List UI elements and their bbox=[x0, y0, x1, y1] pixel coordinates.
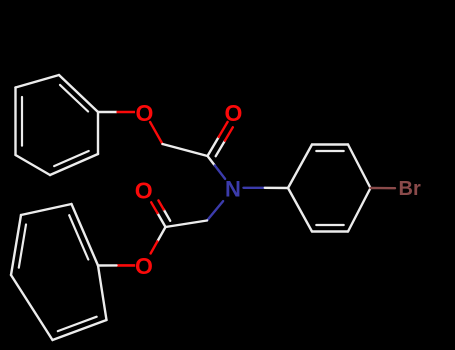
double bond C1=O2 main line (red half) bbox=[219, 122, 228, 137]
ring1 inner double-bond line 1 bbox=[60, 85, 88, 112]
benzene ring3 (4-bromophenyl) bbox=[288, 145, 312, 189]
benzene ring1 (phenoxy phenyl) bbox=[59, 75, 98, 112]
bond O1 to CH2a (red) bbox=[150, 122, 162, 144]
bond C2 to O4 (red half) bbox=[151, 241, 158, 253]
bond C2 to O4 (gray half) bbox=[157, 227, 165, 241]
ring3 inner double-bond line bottom bbox=[316, 224, 343, 226]
double bond C2=O3 main line (gray half) bbox=[158, 213, 166, 227]
svg-text:Br: Br bbox=[399, 178, 421, 200]
bond N to CH2b (blue) bbox=[207, 201, 223, 220]
bond CH2a to C1 (gray) bbox=[163, 144, 208, 156]
double bond C2=O3 parallel line (gray half) bbox=[164, 210, 171, 221]
bond N to ring3 (gray half) bbox=[265, 187, 288, 190]
ring2 inner double-bond line 3 bbox=[19, 225, 26, 268]
bond ring1 C to O1 (gray half) bbox=[98, 111, 117, 113]
bond ring1 C to O1 (red half) bbox=[117, 111, 136, 114]
ring1 inner double-bond line 3 bbox=[54, 151, 89, 166]
ring2 inner double-bond line 2 bbox=[58, 317, 97, 331]
double bond C1=O2 main line (gray half) bbox=[208, 137, 219, 156]
bond O4 to ring2 (gray half) bbox=[98, 264, 117, 267]
double bond C1=O2 parallel line (red half) bbox=[225, 127, 233, 140]
bond CH2b to C2 (gray) bbox=[166, 221, 208, 228]
double bond C1=O2 parallel line (gray half) bbox=[216, 141, 225, 157]
benzene ring2 (ester phenyl) bbox=[21, 204, 72, 215]
double bond C2=O3 parallel line (red half) bbox=[158, 200, 163, 209]
bond C1 to N (gray half) bbox=[208, 156, 215, 166]
svg-text:N: N bbox=[225, 177, 241, 202]
bond N to ring3 (blue half) bbox=[244, 187, 265, 189]
bond C1 to N (blue half) bbox=[215, 166, 225, 179]
svg-text:O: O bbox=[224, 100, 242, 126]
ring2 inner double-bond line 1 bbox=[69, 215, 88, 259]
bond O4 to ring2 (red half) bbox=[117, 264, 136, 267]
bond ring3 to Br bbox=[371, 187, 396, 190]
double bond C2=O3 main line (red half) bbox=[151, 202, 157, 213]
svg-text:O: O bbox=[135, 253, 153, 279]
ring3 inner double-bond line top bbox=[316, 150, 343, 152]
svg-text:O: O bbox=[135, 178, 153, 204]
ring1 inner double-bond line 2 bbox=[21, 97, 23, 146]
